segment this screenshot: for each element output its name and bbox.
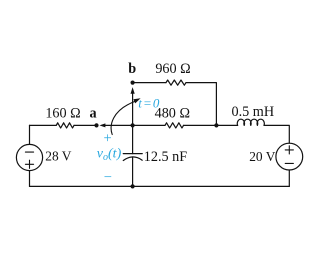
switch blade toward a (line) (104, 124, 133, 126)
wire: middle junction to inductor (216, 124, 237, 126)
wire: bottom rail (30, 185, 290, 187)
svg-text:160 Ω: 160 Ω (45, 106, 80, 122)
arrowhead of blade at node b (131, 87, 135, 94)
node b dot (131, 81, 135, 85)
arrowhead of blade at node a (99, 123, 105, 127)
node a dot (94, 123, 98, 127)
svg-text:t = 0: t = 0 (138, 96, 160, 111)
svg-text:12.5 nF: 12.5 nF (144, 149, 187, 165)
svg-text:+: + (104, 131, 112, 147)
junction dot on bottom rail (131, 184, 135, 188)
voltage source 20V (276, 143, 303, 170)
svg-text:b: b (128, 61, 136, 77)
svg-text:28 V: 28 V (45, 149, 71, 164)
wire: capacitor branch upper segment (132, 125, 134, 153)
junction dot at 480/960/inductor node (214, 123, 218, 127)
switch motion arc t=0 (111, 102, 134, 135)
wire: top branch from node b to right corner (133, 82, 166, 84)
capacitor 12.5 nF top plate (123, 153, 142, 155)
wire: 28V source to bottom rail (29, 171, 31, 187)
svg-text:20 V: 20 V (249, 149, 275, 164)
wire: top-left rail from left corner to 160ohm (30, 124, 57, 126)
resistor 160 ohm (56, 123, 74, 128)
resistor 480 ohm (165, 123, 184, 128)
switch blade toward b (line) (132, 94, 134, 126)
inductor 0.5 mH (237, 119, 264, 125)
wire: capacitor branch lower segment (132, 157, 134, 186)
resistor 960 ohm (166, 80, 186, 85)
wire: 20V source to bottom rail (288, 170, 290, 186)
svg-text:0.5 mH: 0.5 mH (232, 104, 275, 120)
junction dot below b (switch pivot) (131, 123, 135, 127)
wire: 480ohm to middle junction (184, 124, 217, 126)
capacitor 12.5 nF bottom curved plate (123, 157, 142, 161)
svg-text:960 Ω: 960 Ω (155, 61, 190, 77)
28V source polarity marks (25, 152, 33, 168)
wire: switch common junction to 480ohm (133, 124, 165, 126)
wire: inductor to right corner and down to 20V source (264, 125, 289, 143)
wire: 960ohm to corner and down to middle junction (186, 83, 216, 126)
voltage source 28V (16, 144, 42, 170)
svg-text:vo(t): vo(t) (97, 146, 122, 163)
20V source polarity marks (285, 146, 293, 164)
wire: 160ohm to node a (74, 124, 97, 126)
arrowhead of switch motion arc (133, 98, 140, 103)
svg-text:a: a (89, 105, 96, 121)
svg-text:480 Ω: 480 Ω (155, 106, 190, 122)
wire: left rail down to 28V source (29, 125, 31, 144)
svg-text:−: − (104, 169, 112, 185)
